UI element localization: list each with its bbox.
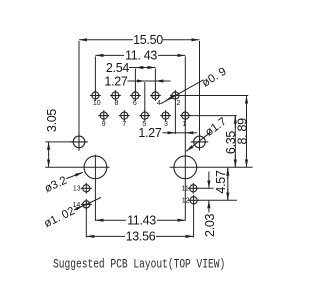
wire extension line pin5 vertical (1.27 ref) (144, 82, 146, 112)
svg-text:2.54: 2.54 (106, 61, 129, 75)
pin 12 (188, 195, 199, 206)
svg-text:3: 3 (164, 121, 168, 128)
svg-text:2.03: 2.03 (203, 213, 217, 236)
svg-text:Suggested PCB Layout(TOP VIEW): Suggested PCB Layout(TOP VIEW) (53, 257, 225, 272)
leader diameter 0.9 through pin 2 (161, 80, 204, 104)
svg-text:11.43: 11.43 (127, 214, 156, 228)
wire extension line right shield hole vertical (15.50 ref) (199, 41, 201, 136)
wire extension line pin11 horizontal (2.03 ref) (197, 187, 214, 189)
dimension 13.56 bottom (86, 235, 125, 237)
dimension 8.89 vertical (246, 96, 248, 168)
dimension 15.50 top (79, 39, 133, 41)
pin 10 (90, 90, 101, 101)
pin 9 (98, 110, 109, 121)
dimension 11.43 bottom (95, 219, 126, 221)
pin 3 (160, 110, 171, 121)
dimension 4.57 vertical (227, 168, 229, 201)
shield hole left (1.7mm) (70, 133, 88, 151)
wire extension line pin4 vertical (2.54/1.27 ref) (154, 69, 156, 92)
wire extension line pin14 vertical (13.56 ref) (85, 209, 87, 238)
svg-text:1.27: 1.27 (138, 126, 161, 140)
wire extension line left hole centerline horizontal (3.05 ref) (45, 166, 109, 168)
svg-text:2: 2 (176, 100, 180, 107)
pin 6 (130, 90, 141, 101)
pin 2 (170, 90, 181, 101)
leader diameter 3.2 to left mounting hole (66, 172, 83, 178)
dimension 3.05 left vertical (48, 142, 50, 155)
mounting hole left (3.2mm) (84, 156, 107, 179)
dimension 11.43 top (95, 54, 124, 56)
wire extension line left mounting hole vertical (11.43 bottom ref) (94, 155, 96, 221)
svg-text:9: 9 (102, 121, 106, 128)
pin 4 (150, 90, 161, 101)
svg-text:4: 4 (157, 100, 161, 107)
dimension 1.27 lower (163, 132, 176, 134)
pin 13 (81, 183, 92, 194)
svg-text:15.50: 15.50 (133, 33, 163, 47)
svg-text:1: 1 (182, 121, 186, 128)
svg-text:13.56: 13.56 (126, 230, 156, 244)
dimension 6.35 vertical (234, 116, 236, 168)
svg-text:10: 10 (93, 100, 101, 107)
wire extension line left shield hole horizontal (3.05 ref) (45, 141, 73, 143)
mounting hole right (3.2mm) (174, 156, 197, 179)
wire extension line pin1 horizontal (6.35 ref) (189, 115, 237, 117)
pin 11 (188, 183, 199, 194)
svg-text:ø1. 02: ø1. 02 (42, 205, 77, 230)
pin 5 (139, 110, 150, 121)
pin 8 (110, 90, 121, 101)
svg-text:7: 7 (122, 121, 126, 128)
leader diameter 1.02 through pin 14 (75, 198, 102, 210)
svg-text:11: 11 (182, 186, 189, 193)
wire extension line pin12 horizontal (2.03/4.57 ref) (198, 199, 237, 201)
svg-text:3.05: 3.05 (45, 109, 59, 132)
leader diameter 1.7 through right shield hole (186, 132, 210, 151)
svg-text:14: 14 (73, 202, 81, 209)
svg-text:12: 12 (182, 198, 190, 205)
svg-text:ø3.2: ø3.2 (43, 175, 69, 196)
svg-text:4.57: 4.57 (214, 170, 228, 193)
svg-text:ø0. 9: ø0. 9 (200, 66, 229, 90)
svg-text:11. 43: 11. 43 (125, 49, 157, 63)
dimension 2.54 (129, 67, 135, 69)
shield hole right (1.7mm) (191, 133, 209, 151)
dimension 2.03 vertical (208, 172, 210, 189)
dimension 1.27 upper (128, 80, 145, 82)
wire extension line pin6 vertical (2.54 ref) (134, 69, 136, 92)
wire extension line pin2 horizontal (8.89 ref) (179, 95, 248, 97)
pin 7 (119, 110, 130, 121)
pin 1 (180, 110, 191, 121)
wire extension line pin10 vertical (11.43 ref) (94, 56, 96, 91)
pin 14 (81, 199, 92, 210)
svg-text:1.27: 1.27 (104, 74, 127, 88)
wire extension line left shield hole vertical (15.50 ref) (78, 41, 80, 136)
svg-text:6: 6 (133, 100, 137, 107)
wire extension line pin2 vertical (lower 1.27 ref) (174, 99, 176, 134)
wire extension line pin12 vertical (13.56 ref) (193, 205, 195, 238)
wire extension line pin1 / right mounting hole vertical (11.43 ref) (184, 56, 186, 221)
wire extension line right hole centerline horizontal (6.35/8.89 ref) (170, 166, 253, 168)
svg-text:8: 8 (114, 100, 118, 107)
svg-text:13: 13 (73, 186, 81, 193)
svg-text:8. 89: 8. 89 (236, 118, 250, 145)
